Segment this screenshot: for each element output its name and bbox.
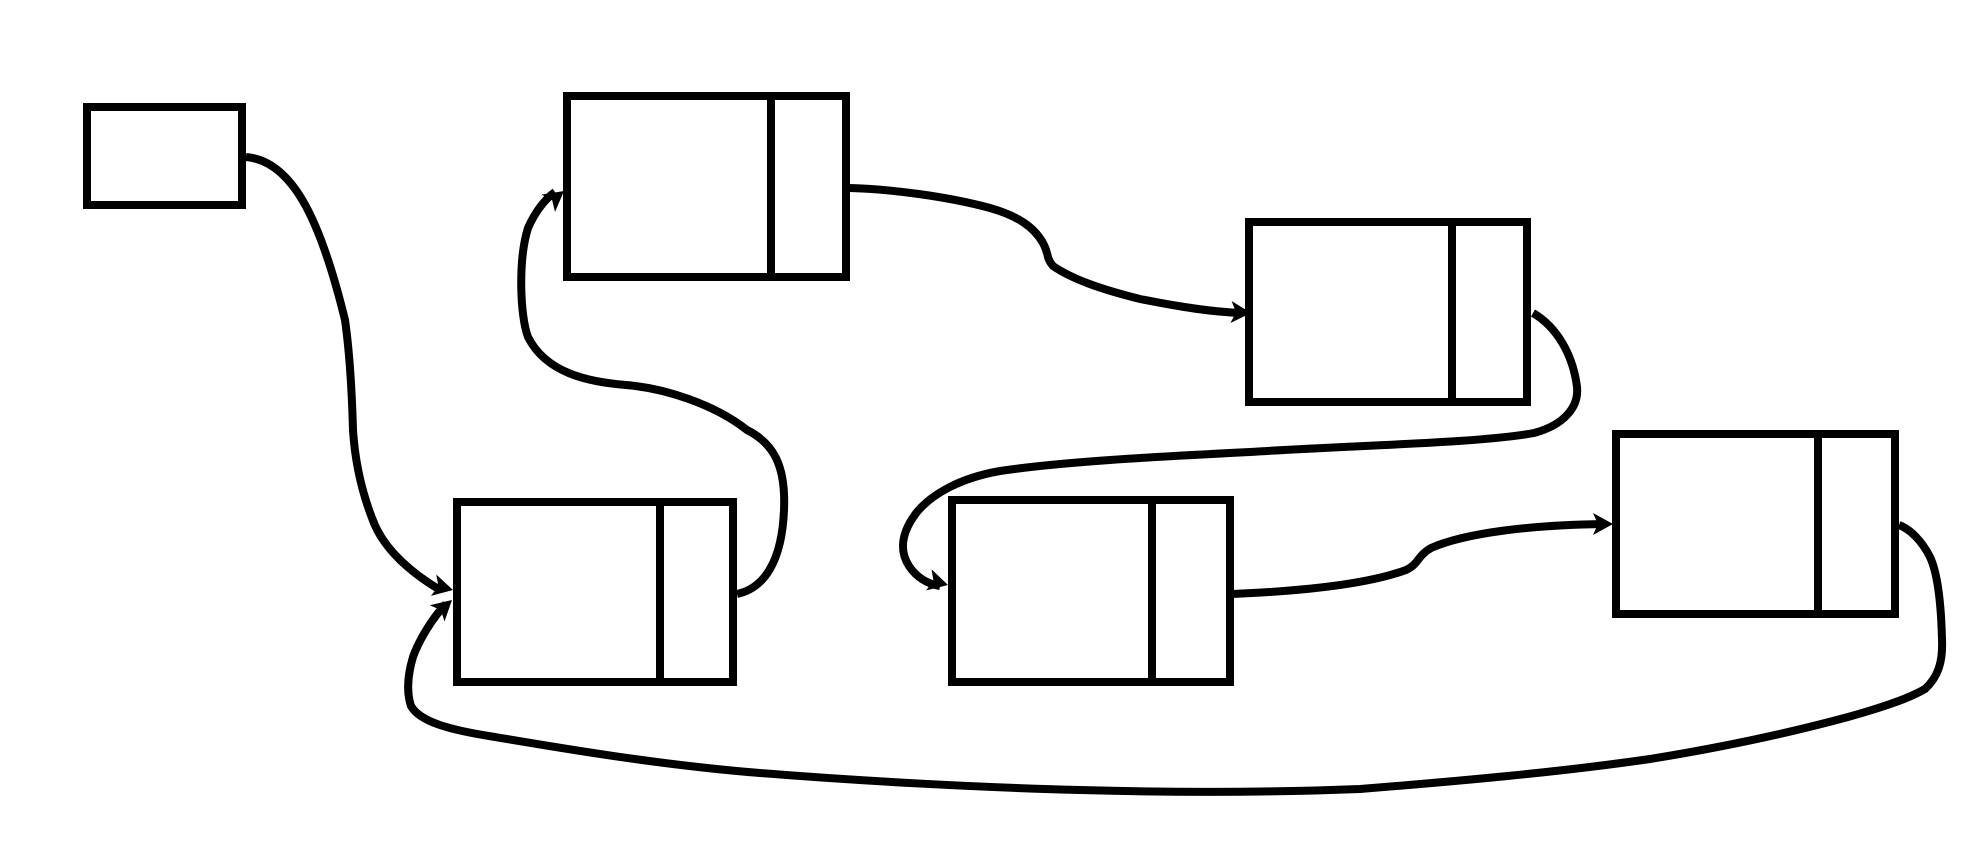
wire head to node A xyxy=(246,157,456,601)
wire node A to node B xyxy=(521,182,784,594)
head box xyxy=(87,107,242,205)
node C box xyxy=(1249,222,1527,402)
wire node C to node D xyxy=(903,313,1577,596)
node B box xyxy=(567,96,846,277)
wire node D to node E xyxy=(1232,513,1613,594)
wire node B to node C xyxy=(850,188,1252,324)
node E box xyxy=(1616,434,1895,614)
wire node E to node A (cycle) xyxy=(408,525,1942,792)
node A box xyxy=(457,502,733,682)
node D box xyxy=(952,500,1230,682)
